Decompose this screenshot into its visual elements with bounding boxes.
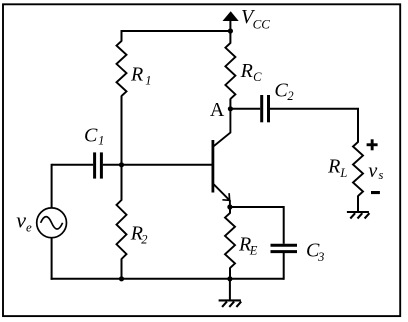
- node A junction: [228, 106, 233, 111]
- svg-text:s: s: [379, 168, 384, 182]
- svg-text:R: R: [327, 156, 340, 178]
- label R1: [130, 64, 151, 88]
- wire node A to C2: [230, 108, 260, 110]
- wire Vcc stem: [229, 20, 231, 31]
- node Vcc junction: [228, 28, 233, 33]
- svg-text:v: v: [368, 160, 377, 182]
- svg-text:CC: CC: [253, 16, 271, 31]
- node base junction: [119, 162, 124, 167]
- wire source top lead: [51, 164, 53, 208]
- label RL: [327, 156, 347, 180]
- label + output polarity: [367, 139, 378, 150]
- resistor RL: [353, 142, 363, 196]
- wire R1 bottom to base junction: [121, 96, 123, 165]
- resistor R2: [117, 200, 127, 259]
- svg-text:1: 1: [145, 73, 151, 87]
- svg-text:R: R: [130, 64, 143, 86]
- wire top rail: [122, 30, 231, 32]
- wire RL bottom stub: [357, 196, 359, 212]
- transistor Q1 emitter lead: [214, 184, 230, 207]
- svg-text:2: 2: [287, 89, 293, 103]
- svg-text:R: R: [240, 60, 253, 82]
- wire RC bottom to node A: [229, 99, 231, 109]
- source ve circle: [37, 208, 67, 238]
- transistor Q1 emitter arrowhead: [222, 193, 229, 200]
- svg-text:L: L: [339, 166, 347, 180]
- label RE: [238, 233, 258, 257]
- wire C3 bottom lead: [283, 253, 285, 280]
- resistor R1: [117, 41, 127, 96]
- svg-text:e: e: [26, 219, 32, 234]
- wire RE bottom stub: [229, 268, 231, 279]
- wire ground stem: [229, 279, 231, 301]
- ground under emitter: [219, 300, 242, 307]
- wire R1 top stub: [121, 30, 123, 42]
- svg-text:C: C: [84, 124, 98, 146]
- wire C1 left to source: [52, 164, 94, 166]
- source ve sine wave: [41, 217, 63, 229]
- capacitor C1: [95, 152, 102, 178]
- wire source bottom lead: [51, 238, 53, 280]
- label C3: [306, 239, 324, 264]
- svg-text:C: C: [274, 80, 288, 102]
- wire C3 top lead: [283, 206, 285, 244]
- node ground junction: [227, 276, 232, 281]
- resistor RE: [225, 213, 235, 268]
- svg-text:E: E: [249, 244, 258, 258]
- label RC: [240, 60, 263, 84]
- wire C2 to output corner: [270, 109, 358, 143]
- wire bottom rail: [51, 278, 284, 280]
- svg-text:2: 2: [141, 233, 147, 247]
- wire Rc top stub: [229, 31, 231, 44]
- wire R2 top stub: [121, 165, 123, 201]
- resistor RC: [225, 43, 235, 99]
- wire base: [103, 164, 212, 166]
- Vcc supply arrow: [223, 11, 239, 21]
- svg-text:3: 3: [317, 250, 324, 264]
- label C2: [274, 80, 293, 104]
- label - output polarity: [371, 191, 380, 194]
- label ve: [16, 208, 32, 235]
- svg-text:1: 1: [98, 134, 104, 148]
- svg-text:A: A: [210, 99, 225, 121]
- svg-text:C: C: [253, 70, 262, 84]
- transistor Q1 collector lead: [214, 109, 231, 146]
- label C1: [84, 124, 104, 147]
- wire emitter to C3: [230, 206, 284, 208]
- capacitor C2: [262, 95, 269, 122]
- label R2: [130, 222, 148, 246]
- capacitor C3: [271, 245, 298, 251]
- label V_CC: [241, 6, 270, 32]
- transistor Q1 base bar: [211, 140, 214, 193]
- node R2 bottom junction: [119, 276, 124, 281]
- node emitter junction: [227, 204, 232, 209]
- svg-text:v: v: [16, 208, 26, 233]
- wire RE top stub: [229, 207, 231, 214]
- ground under RL: [347, 212, 370, 219]
- label vs: [368, 160, 383, 182]
- wire R2 bottom stub: [121, 259, 123, 279]
